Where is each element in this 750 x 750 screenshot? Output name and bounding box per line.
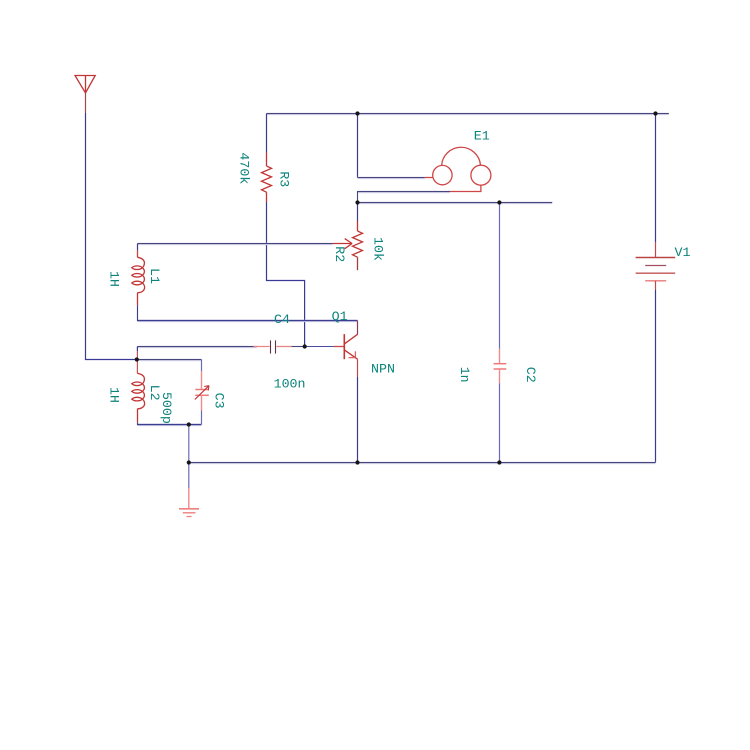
wire R3 top riser	[266, 114, 268, 153]
svg-text:100n: 100n	[274, 377, 306, 392]
svg-text:R3: R3	[277, 171, 292, 187]
svg-text:V1: V1	[675, 245, 691, 260]
svg-text:C3: C3	[211, 393, 226, 409]
label 100n	[274, 377, 306, 392]
wire mid rail	[358, 202, 553, 204]
label C2	[523, 367, 538, 383]
label R2	[332, 246, 347, 262]
svg-text:1H: 1H	[107, 387, 122, 403]
transistor Q1	[334, 334, 358, 359]
svg-text:1H: 1H	[107, 271, 122, 287]
wire headphone riser	[357, 114, 359, 178]
wire tank top to C3	[137, 359, 202, 361]
resistor R3	[262, 153, 272, 203]
label C3	[211, 393, 226, 409]
wire emitter	[357, 359, 359, 377]
svg-text:E1: E1	[474, 129, 490, 144]
label 10k	[371, 237, 386, 261]
svg-text:C2: C2	[523, 367, 538, 383]
svg-text:NPN: NPN	[371, 362, 395, 377]
wire L1 bottom to collector	[138, 320, 358, 322]
svg-text:500p: 500p	[159, 392, 174, 424]
wire bottom rail	[189, 462, 656, 464]
battery V1	[655, 114, 657, 243]
wire top rail	[267, 113, 669, 115]
svg-text:Q1: Q1	[332, 309, 348, 324]
label C4	[274, 312, 290, 327]
inductor L1	[132, 244, 145, 306]
svg-text:C4: C4	[274, 312, 290, 327]
wire headphone return	[358, 191, 451, 193]
wire C4 left	[137, 346, 256, 348]
wire tank node vertical	[136, 347, 138, 352]
label 470k	[237, 152, 252, 184]
wire R3 bottom jog to base node	[267, 202, 305, 347]
headphones E1	[425, 147, 491, 191]
label 1H	[107, 271, 122, 287]
wire antenna down to tank node	[86, 113, 137, 360]
label 500p	[159, 392, 174, 424]
label Q1	[332, 309, 348, 324]
svg-text:R2: R2	[332, 246, 347, 262]
wire L1 top to R2 wiper	[138, 243, 333, 245]
capacitor C2	[499, 203, 501, 349]
variable capacitor C3	[195, 371, 209, 411]
svg-text:10k: 10k	[371, 237, 386, 261]
wire L2 bottom	[138, 424, 202, 426]
wire C4 right to base node	[292, 346, 305, 348]
wire headphone left	[358, 177, 425, 179]
label L2	[147, 385, 162, 401]
potentiometer R2	[357, 203, 359, 222]
svg-text:470k: 470k	[237, 152, 252, 184]
label R3	[277, 171, 292, 187]
inductor L2	[132, 373, 145, 422]
svg-text:1n: 1n	[457, 367, 472, 383]
label NPN	[371, 362, 395, 377]
wire collector riser	[357, 321, 359, 335]
label E1	[474, 129, 490, 144]
label L1	[147, 268, 162, 284]
ground	[188, 463, 190, 489]
label 1n	[457, 367, 472, 383]
wire C3 bottom	[201, 411, 203, 425]
svg-text:L1: L1	[147, 268, 162, 284]
label V1	[675, 245, 691, 260]
capacitor C4	[254, 340, 292, 353]
wire tank bottom drop	[188, 425, 190, 463]
label 1H	[107, 387, 122, 403]
antenna	[75, 76, 95, 114]
wire base	[305, 346, 334, 348]
